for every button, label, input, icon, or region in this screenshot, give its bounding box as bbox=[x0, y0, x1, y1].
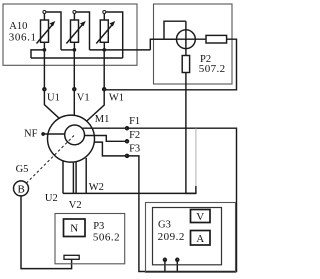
wire R3 top loop bbox=[106, 12, 123, 58]
resistor P2 series bbox=[206, 35, 227, 43]
node F1 bbox=[126, 127, 129, 130]
wire chain segment R1 junction to left jog bbox=[31, 50, 44, 58]
wire W2 drop bbox=[85, 158, 87, 194]
wire R2 top loop bbox=[76, 12, 90, 50]
wire P2 voltage loop bbox=[164, 21, 186, 39]
motor M1 stator bbox=[48, 115, 95, 162]
svg-text:V: V bbox=[196, 211, 204, 223]
node F2 bbox=[126, 140, 129, 143]
wire F1 to G3 loop to F3 bbox=[127, 128, 237, 271]
wire V2b drop bbox=[75, 162, 77, 194]
wire B to P3 bbox=[21, 196, 72, 269]
wire chain exit riser to P2 bbox=[150, 39, 176, 50]
wire through P2 circle horizontal bbox=[150, 38, 206, 40]
node G3 left terminal bbox=[164, 259, 167, 262]
block P2 507.2 enclosure bbox=[154, 4, 233, 84]
wire chain segment R2 top to R3 junction and right jog bbox=[90, 49, 151, 51]
wire rotor to F1 bbox=[82, 127, 127, 129]
node F3 bbox=[126, 155, 129, 158]
block P3 506.2 enclosure bbox=[55, 214, 125, 264]
meter A box bbox=[191, 231, 211, 246]
wire W1 drop bbox=[103, 52, 105, 90]
meter P2 circle bbox=[177, 30, 196, 49]
resistor R2 (variable, A10) bbox=[66, 11, 85, 52]
svg-text:P3: P3 bbox=[93, 221, 104, 232]
wire chain segment R1 top to R2 junction bbox=[61, 49, 74, 51]
svg-text:G3: G3 bbox=[158, 220, 171, 231]
svg-text:F3: F3 bbox=[129, 144, 140, 155]
node G3 right terminal bbox=[176, 259, 179, 262]
indicator N box bbox=[64, 219, 86, 237]
shaft coupling dashed bbox=[26, 136, 74, 184]
svg-text:F1: F1 bbox=[129, 116, 140, 127]
svg-text:NF: NF bbox=[24, 129, 38, 140]
wire bus to P2 bbox=[31, 57, 123, 59]
svg-text:M1: M1 bbox=[95, 114, 110, 125]
svg-text:306.1: 306.1 bbox=[9, 32, 37, 44]
svg-text:W2: W2 bbox=[89, 182, 104, 193]
block A10 306.1 enclosure bbox=[3, 4, 137, 65]
wire stator to F3 bbox=[94, 142, 127, 156]
wire U1 to motor bbox=[44, 89, 59, 118]
resistor R1 (variable, A10) bbox=[37, 11, 56, 52]
node V1 bbox=[73, 88, 76, 91]
generator G5 circle B bbox=[14, 181, 29, 196]
wire U1 drop bbox=[43, 52, 45, 90]
svg-text:U2: U2 bbox=[45, 193, 58, 204]
svg-text:209.2: 209.2 bbox=[158, 231, 185, 243]
resistor R3 (variable, A10) bbox=[96, 11, 115, 52]
wire P2 resistor to W1 bbox=[106, 39, 237, 90]
node W1 bbox=[103, 88, 106, 91]
svg-text:507.2: 507.2 bbox=[199, 63, 226, 75]
wire V1 drop bbox=[73, 52, 75, 90]
svg-text:B: B bbox=[18, 184, 25, 196]
wire bottom bus bbox=[63, 192, 196, 194]
resistor P2 shunt bbox=[182, 56, 189, 73]
block G3 209.2 outer enclosure bbox=[146, 203, 236, 273]
block G3 inner box bbox=[153, 208, 222, 265]
wire G3 right terminal riser bbox=[176, 260, 178, 272]
meter V box bbox=[191, 210, 211, 223]
wire V2 drop bbox=[72, 162, 74, 193]
node U1 bbox=[43, 88, 46, 91]
node NF bbox=[41, 132, 45, 136]
svg-text:A10: A10 bbox=[9, 21, 27, 32]
wire rotor to F2 bbox=[84, 136, 127, 142]
svg-text:F2: F2 bbox=[129, 130, 140, 141]
wire through P2 circle vertical bbox=[185, 21, 187, 55]
svg-text:506.2: 506.2 bbox=[93, 232, 120, 244]
wire G3 left terminal riser bbox=[164, 260, 166, 272]
svg-text:V2: V2 bbox=[69, 200, 82, 211]
svg-text:U1: U1 bbox=[47, 93, 60, 104]
wire R1 top loop bbox=[46, 12, 61, 50]
terminal P3 plug bbox=[64, 255, 79, 259]
wire U2 drop bbox=[62, 161, 64, 194]
svg-text:N: N bbox=[70, 223, 78, 235]
svg-text:G5: G5 bbox=[16, 164, 29, 175]
motor M1 rotor bbox=[65, 125, 85, 145]
wire P2 shunt down bbox=[186, 73, 196, 194]
wire NF brush bbox=[43, 133, 65, 135]
svg-text:A: A bbox=[196, 233, 204, 245]
wire riser to F1 line bbox=[195, 128, 197, 186]
wire W1 to motor bbox=[87, 89, 105, 121]
svg-text:V1: V1 bbox=[77, 93, 90, 104]
svg-text:W1: W1 bbox=[109, 93, 124, 104]
wire V1 to motor bbox=[73, 89, 75, 115]
